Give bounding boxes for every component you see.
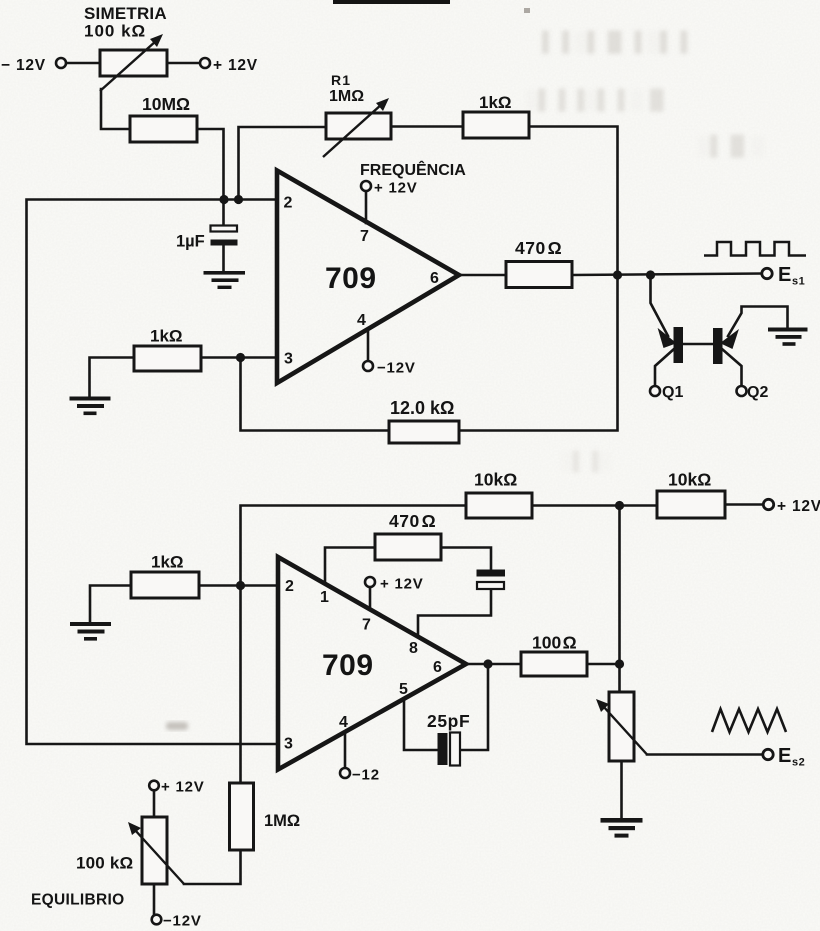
transistor Q1 base bar bbox=[674, 327, 684, 363]
transistor Q2 base bar bbox=[713, 328, 723, 364]
svg-text:10kΩ: 10kΩ bbox=[474, 470, 517, 490]
svg-text:SIMETRIA: SIMETRIA bbox=[84, 4, 167, 23]
small speck top bbox=[524, 8, 530, 13]
faint page bleed-through row 1 bbox=[542, 30, 688, 54]
svg-text:−12: −12 bbox=[352, 767, 380, 784]
capacitor 1uF top plate bbox=[211, 226, 238, 232]
resistor 12.0k body bbox=[389, 421, 459, 443]
svg-text:s2: s2 bbox=[792, 757, 805, 769]
svg-text:100 kΩ: 100 kΩ bbox=[84, 22, 146, 41]
wire: 1k to U1 pin 3 bbox=[201, 356, 277, 359]
potentiometer P4 EQUILIBRIO body bbox=[142, 817, 167, 884]
svg-text:6: 6 bbox=[433, 659, 442, 676]
op-amp U1 709 body bbox=[277, 171, 459, 384]
capacitor 25pF left plate bbox=[438, 733, 448, 765]
svg-text:4: 4 bbox=[339, 714, 348, 731]
terminal +12V (U1 pin 7) bbox=[361, 181, 371, 191]
terminal +12V (P4 top) bbox=[149, 781, 159, 791]
wire: 10k no.1 to 10k no.2 rail with junction bbox=[530, 504, 657, 507]
wire: U2 pin 5 lead to 25pF bbox=[404, 699, 437, 750]
junction node at 100 ohm right bbox=[615, 659, 624, 668]
capacitor 1uF bottom plate bbox=[211, 240, 238, 246]
svg-text:−12V: −12V bbox=[163, 913, 202, 930]
capacitor electrolytic (U2) top plate bbox=[477, 570, 506, 577]
svg-text:−12V: −12V bbox=[377, 360, 416, 377]
svg-text:100 Ω: 100 Ω bbox=[532, 633, 577, 653]
wire: Q2 emitter to ground run bbox=[728, 307, 788, 337]
wire: P3 wiper to Es2 terminal bbox=[647, 753, 763, 756]
wire: -12V terminal to pot P1 bbox=[66, 62, 100, 65]
terminal Es1 bbox=[762, 268, 772, 278]
svg-text:1µF: 1µF bbox=[176, 233, 205, 251]
svg-text:8: 8 bbox=[409, 640, 418, 657]
faint page bleed-through row 3 bbox=[697, 134, 765, 158]
terminal +12V (right rail) bbox=[763, 499, 773, 509]
wire: 100 ohm to right rail node bbox=[587, 663, 620, 666]
potentiometer R1 1M body bbox=[326, 113, 391, 139]
terminal Es2 bbox=[763, 749, 773, 759]
svg-text:FREQUÊNCIA: FREQUÊNCIA bbox=[360, 160, 466, 179]
wire: U2 pin 4 lead bbox=[344, 732, 347, 768]
potentiometer P4 wiper arrow bbox=[128, 822, 184, 884]
resistor 1M (vertical) body bbox=[230, 783, 254, 850]
wire: 10k no.2 to +12V terminal bbox=[725, 503, 764, 506]
svg-text:Q2: Q2 bbox=[747, 384, 768, 401]
svg-text:6: 6 bbox=[430, 270, 439, 287]
svg-text:1kΩ: 1kΩ bbox=[479, 93, 512, 112]
svg-text:470 Ω: 470 Ω bbox=[389, 511, 436, 531]
ground (P3 bottom) bbox=[601, 818, 643, 838]
svg-text:1: 1 bbox=[320, 589, 329, 606]
svg-text:12.0 kΩ: 12.0 kΩ bbox=[390, 398, 454, 418]
terminal -12V (P1 left) bbox=[56, 58, 66, 68]
terminal Q1 bbox=[650, 386, 660, 396]
junction node at U2 output bbox=[483, 659, 492, 668]
svg-text:100 kΩ: 100 kΩ bbox=[76, 854, 133, 873]
wire: 1uF capacitor top lead bbox=[222, 200, 225, 227]
svg-text:10MΩ: 10MΩ bbox=[142, 94, 190, 114]
terminal -12V (P4 bottom) bbox=[152, 915, 162, 925]
svg-text:1kΩ: 1kΩ bbox=[151, 553, 184, 572]
svg-text:10kΩ: 10kΩ bbox=[668, 470, 711, 490]
faint page bleed-through row 2 bbox=[525, 88, 670, 112]
wire: U1 pin 4 lead bbox=[367, 329, 370, 361]
ground (U2 pin2 1k) bbox=[70, 622, 111, 641]
svg-text:E: E bbox=[778, 264, 791, 286]
wire: R1 to 1k top resistor bbox=[391, 125, 463, 128]
svg-text:+ 12V: + 12V bbox=[374, 180, 418, 197]
wire: pin2 node up to R1 rail bbox=[239, 127, 327, 200]
junction node at Q1 branch bbox=[646, 270, 655, 279]
wire: bottom rail from op2 pin2 node up to 10k rail bbox=[241, 506, 467, 586]
svg-text:2: 2 bbox=[284, 195, 293, 212]
wire: P3 bottom to ground bbox=[620, 761, 623, 818]
wire: 25pF to output node bbox=[460, 664, 488, 750]
svg-text:7: 7 bbox=[360, 228, 369, 245]
wire: pot P1 to +12V terminal bbox=[167, 62, 200, 65]
svg-text:2: 2 bbox=[285, 578, 294, 595]
junction node at pin2 of U2 bbox=[236, 581, 245, 590]
wire: U1 pin 7 lead bbox=[365, 191, 368, 223]
junction node at pin2 of U1 (left dot) bbox=[219, 195, 228, 204]
wire: output node down to Q1 emitter bbox=[651, 275, 669, 336]
resistor 470 (U2 feedback) body bbox=[375, 534, 441, 560]
wire: U1 output to 470 resistor bbox=[459, 274, 506, 277]
resistor 1k (U1 pin3) body bbox=[134, 346, 201, 371]
resistor 1k (U2 pin2) body bbox=[131, 572, 199, 598]
ground (below 1uF) bbox=[204, 271, 246, 289]
potentiometer P1 wiper arrow bbox=[100, 34, 163, 91]
svg-text:5: 5 bbox=[399, 681, 408, 698]
square wave symbol bbox=[704, 242, 806, 256]
resistor 1k (top right) body bbox=[463, 112, 529, 138]
faint page bleed-through row 4 bbox=[560, 450, 611, 473]
wire: equilibrio pot P4 to -12V terminal bbox=[153, 884, 156, 915]
svg-text:1MΩ: 1MΩ bbox=[264, 812, 300, 830]
wire: pin2 row junction to op-amp U1 pin 2 bbox=[224, 198, 277, 201]
top page rule bar bbox=[333, 0, 450, 4]
potentiometer R1 wiper arrow bbox=[323, 98, 389, 157]
terminal +12V (U2 pin 7) bbox=[365, 577, 375, 587]
svg-text:4: 4 bbox=[357, 312, 366, 329]
svg-text:+ 12V: + 12V bbox=[380, 576, 424, 593]
wire: 470 resistor to Es1 terminal bbox=[572, 274, 762, 276]
terminal -12 (U2 pin 4) bbox=[340, 768, 350, 778]
svg-text:E: E bbox=[778, 745, 791, 767]
svg-text:709: 709 bbox=[322, 649, 374, 682]
svg-text:Q1: Q1 bbox=[662, 384, 683, 401]
faint smudge near EQUILIBRIO bbox=[166, 722, 188, 730]
svg-text:▌▐ ░▌▐▌▐ ░▌▐: ▌▐ ░▌▐▌▐ ░▌▐ bbox=[542, 30, 688, 54]
wire: right rail junction down to 100 ohm node and pot P3 bbox=[618, 506, 621, 693]
wire: U2 pin 7 lead bbox=[369, 587, 372, 609]
potentiometer P3 (output) body bbox=[609, 692, 634, 761]
svg-text:+ 12V: + 12V bbox=[777, 498, 820, 515]
wire: right vertical rail output node down to 12k feedback bbox=[459, 275, 618, 431]
wire: pin2 node down to 1M resistor (crossover at pin3 row) bbox=[239, 586, 242, 784]
junction node at pin3 of U1 bbox=[236, 353, 245, 362]
resistor 10M body bbox=[130, 116, 197, 142]
svg-text:R1: R1 bbox=[331, 72, 351, 88]
sawtooth wave symbol bbox=[712, 709, 786, 732]
wire: ground lead of 1k (U2 pin2) bbox=[90, 586, 131, 623]
resistor 10k no.1 body bbox=[466, 493, 532, 518]
svg-text:s1: s1 bbox=[792, 276, 805, 288]
svg-text:░▌▐ ▐░▌▐ ░▐▌: ░▌▐ ▐░▌▐ ░▐▌ bbox=[525, 88, 670, 112]
svg-text:3: 3 bbox=[284, 736, 293, 753]
wire: 1uF capacitor bottom lead to ground bbox=[222, 245, 225, 272]
wire: Q1-Q2 base link bbox=[683, 343, 713, 346]
terminal +12V (P1 right) bbox=[200, 58, 210, 68]
wire: electrolytic cap bottom to U2 pin 8 bbox=[418, 589, 491, 637]
potentiometer P1 SIMETRIA 100k body bbox=[100, 50, 167, 76]
resistor 470 (U1 output) body bbox=[506, 262, 572, 288]
svg-text:░▌▐░: ░▌▐░ bbox=[560, 450, 611, 473]
wire: ground lead of 1k (U1 pin3) bbox=[90, 358, 134, 397]
wire: Q1 collector to terminal bbox=[655, 349, 674, 386]
terminal Q2 bbox=[737, 386, 747, 396]
wire: pin3 node down to 12k feedback resistor bbox=[241, 358, 390, 431]
wire: 1k top resistor to right vertical rail bbox=[529, 127, 618, 276]
svg-text:470 Ω: 470 Ω bbox=[515, 238, 562, 258]
svg-text:+ 12V: + 12V bbox=[213, 57, 258, 74]
ground (U1 pin3 1k) bbox=[70, 397, 111, 416]
svg-text:7: 7 bbox=[362, 617, 371, 634]
wire: +12V terminal to equilibrio pot P4 bbox=[153, 790, 156, 817]
junction node at pin2 of U1 (right dot) bbox=[234, 195, 243, 204]
wire: U2 output to 100 ohm bbox=[466, 663, 521, 666]
wire: U2 pin1 lead up to 470 feedback rail bbox=[325, 548, 375, 585]
svg-text:25pF: 25pF bbox=[427, 711, 470, 731]
transistor Q2 emitter arrow bbox=[722, 331, 738, 348]
wire: 470 feedback to electrolytic cap bbox=[441, 548, 491, 571]
capacitor electrolytic (U2) bottom plate bbox=[477, 582, 504, 589]
svg-text:1kΩ: 1kΩ bbox=[150, 327, 183, 346]
capacitor 25pF right plate bbox=[450, 733, 460, 766]
transistor Q1 emitter arrow bbox=[659, 330, 675, 347]
junction node on +12V rail bbox=[615, 501, 624, 510]
svg-text:3: 3 bbox=[284, 351, 293, 368]
svg-text:709: 709 bbox=[325, 262, 377, 295]
svg-text:░▌▐▌░: ░▌▐▌░ bbox=[697, 134, 765, 158]
svg-text:EQUILIBRIO: EQUILIBRIO bbox=[31, 892, 124, 909]
resistor 100 ohm body bbox=[521, 652, 587, 676]
wire: Q2 collector to terminal bbox=[722, 349, 742, 386]
ground (Q2 emitter) bbox=[768, 328, 808, 346]
resistor 10k no.2 body bbox=[657, 491, 725, 518]
wire: 1k to U2 pin 2 bbox=[199, 584, 278, 587]
op-amp U2 709 body bbox=[278, 557, 466, 770]
wire: left long rail from pin2 row down to op2 pin3 row bbox=[27, 200, 279, 745]
wire: P1 wiper down to 10M resistor bbox=[101, 89, 130, 129]
potentiometer P3 wiper arrow bbox=[596, 699, 647, 755]
wire: 10M resistor to vertical drop into pin2 node bbox=[197, 129, 224, 200]
svg-text:− 12V: − 12V bbox=[1, 57, 46, 74]
svg-text:+ 12V: + 12V bbox=[161, 779, 205, 796]
terminal -12V (U1 pin 4) bbox=[363, 361, 373, 371]
junction node at U1 output rail bbox=[613, 270, 622, 279]
svg-text:1MΩ: 1MΩ bbox=[329, 88, 364, 105]
wire: 1M resistor bottom to equilibrio pot wiper bbox=[184, 850, 241, 884]
